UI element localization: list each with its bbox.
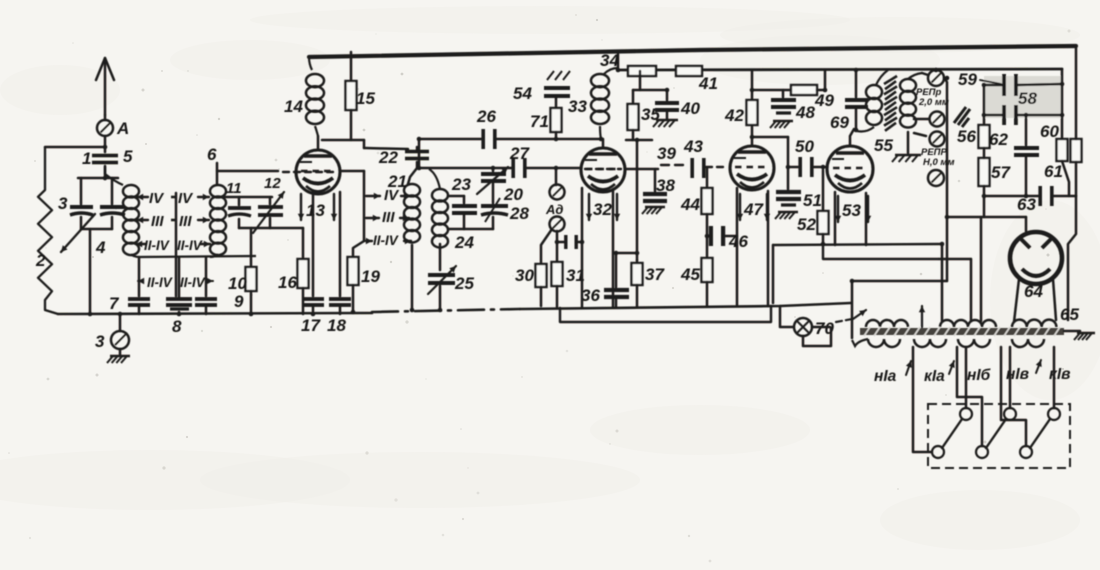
secondary humps group1 bbox=[852, 339, 900, 347]
label nIa bbox=[874, 368, 897, 385]
label kIv bbox=[1049, 366, 1071, 383]
svg-text:9: 9 bbox=[234, 292, 244, 311]
tube 13 heater arrows bbox=[298, 194, 337, 220]
svg-text:37: 37 bbox=[645, 265, 665, 284]
resistor R34 bbox=[628, 66, 656, 76]
wire below cap5 bbox=[104, 166, 107, 179]
svg-text:2,0 мм: 2,0 мм bbox=[918, 97, 949, 108]
secondary humps group4 bbox=[1012, 339, 1044, 347]
svg-text:5: 5 bbox=[123, 147, 133, 166]
wire coil bottoms bbox=[131, 254, 256, 257]
wiper arrow of R2 bbox=[61, 214, 95, 252]
power transformer core bbox=[860, 327, 1064, 336]
antenna coil right winding bbox=[210, 185, 226, 255]
capacitor C69 bbox=[830, 70, 868, 132]
node 39 dashes bbox=[657, 144, 686, 165]
wire coil21 to bus bbox=[411, 245, 414, 310]
tube 32 heater arrows bbox=[586, 194, 620, 220]
svg-text:62: 62 bbox=[989, 130, 1008, 149]
tube 47 anode lead bbox=[751, 125, 754, 146]
wire screen feed bbox=[626, 130, 652, 263]
capacitor C18 bbox=[327, 297, 351, 335]
indicator A bbox=[97, 115, 129, 138]
resistor R19 bbox=[348, 241, 381, 312]
wire y139 with cap 26 bbox=[419, 139, 601, 168]
resistor R44 bbox=[680, 168, 713, 214]
svg-text:71: 71 bbox=[530, 112, 549, 131]
terminal circle 3 bbox=[914, 132, 945, 147]
power transformer primary humps bbox=[866, 320, 1056, 327]
svg-text:20: 20 bbox=[503, 185, 523, 204]
variable capacitor C20 bbox=[477, 167, 523, 204]
svg-text:21: 21 bbox=[387, 172, 407, 191]
svg-text:II-IV: II-IV bbox=[147, 275, 173, 290]
tube 47 heater arrows bbox=[737, 194, 770, 220]
label REPR 2.0 bbox=[916, 87, 949, 108]
wire jack down bbox=[556, 231, 559, 262]
pointer squiggle bbox=[954, 107, 970, 127]
chassis hatch under C40 bbox=[653, 120, 678, 127]
svg-text:10: 10 bbox=[228, 274, 247, 293]
svg-text:55: 55 bbox=[874, 136, 893, 155]
tube 53 heater arrows bbox=[835, 196, 871, 222]
rail y259 bbox=[823, 245, 971, 259]
svg-text:65: 65 bbox=[1060, 305, 1079, 324]
capacitor C24 bracket bbox=[448, 196, 477, 252]
svg-text:23: 23 bbox=[451, 175, 471, 194]
svg-text:II-IV: II-IV bbox=[144, 238, 170, 253]
svg-text:64: 64 bbox=[1024, 282, 1043, 301]
wire caps 11-12 bottom bbox=[239, 218, 270, 267]
svg-text:52: 52 bbox=[797, 215, 816, 234]
variable capacitor C25 bbox=[428, 244, 474, 310]
svg-text:56: 56 bbox=[957, 127, 976, 146]
output transformer 55 secondary bbox=[900, 73, 922, 128]
svg-text:19: 19 bbox=[361, 267, 380, 286]
svg-text:17: 17 bbox=[301, 316, 321, 335]
capacitor C9 bbox=[195, 258, 244, 311]
right edge vertical bbox=[1075, 48, 1078, 196]
svg-text:43: 43 bbox=[683, 137, 703, 156]
chassis hatch under transformer bbox=[892, 155, 921, 162]
svg-text:II-IV: II-IV bbox=[177, 238, 203, 253]
resistor R57 bbox=[979, 148, 1012, 196]
wire y168 with cap 27 bbox=[419, 167, 581, 170]
terminal bus vertical bbox=[944, 78, 947, 281]
anode wire to cap 22 bbox=[322, 140, 408, 149]
wire tube13 legs down bbox=[313, 192, 340, 296]
chassis hatch under C51 bbox=[775, 212, 798, 219]
resistor R37 bbox=[632, 263, 666, 307]
switch contact bottom 2 bbox=[976, 446, 988, 458]
svg-text:А: А bbox=[116, 119, 129, 138]
wire to caps 11-12 bbox=[222, 196, 272, 199]
switch contact bottom 3 bbox=[1020, 446, 1032, 458]
svg-text:61: 61 bbox=[1044, 162, 1063, 181]
label nIb bbox=[967, 367, 991, 384]
switch arrow on primary bbox=[919, 306, 925, 327]
tube 32 grid dashes bbox=[585, 168, 658, 170]
tube 64 legs bbox=[1014, 279, 1056, 322]
gray box 58 bbox=[984, 76, 1062, 118]
svg-text:8: 8 bbox=[172, 317, 182, 336]
tube 32 bbox=[581, 148, 625, 192]
wire caps 3-4 bottom bbox=[81, 217, 112, 314]
trimmer capacitor C28 bbox=[481, 183, 529, 223]
resistor R10 bbox=[228, 267, 257, 293]
svg-text:30: 30 bbox=[515, 266, 534, 285]
resistor R2 (potentiometer) bbox=[35, 147, 58, 314]
capacitor C22 bbox=[378, 148, 429, 167]
lamp 70 bbox=[780, 306, 834, 338]
capacitor C54 bbox=[513, 71, 570, 108]
resistor R52 bbox=[797, 170, 829, 245]
switch contact bottom 1 bbox=[932, 446, 944, 458]
svg-text:3: 3 bbox=[95, 332, 105, 351]
svg-text:41: 41 bbox=[698, 74, 718, 93]
tube 53 bbox=[827, 146, 873, 192]
svg-text:33: 33 bbox=[568, 97, 587, 116]
tube 32 anode lead bbox=[602, 139, 605, 148]
capacitor C26 bbox=[476, 107, 497, 149]
wire caps789 to bus bbox=[139, 306, 206, 314]
dash to tube47 grid bbox=[706, 166, 727, 168]
band label row lower II-IV bbox=[138, 275, 213, 290]
svg-text:59: 59 bbox=[958, 70, 977, 89]
wire to resistor 2 bbox=[45, 146, 105, 149]
capacitor C51 bbox=[776, 190, 822, 210]
svg-text:12: 12 bbox=[264, 175, 281, 192]
coil 21 bbox=[387, 172, 420, 243]
wire caps 3-4 top bbox=[78, 177, 118, 180]
band switch row II-IV bbox=[136, 238, 210, 253]
svg-text:47: 47 bbox=[743, 200, 764, 219]
resistor R49 bbox=[752, 71, 834, 110]
wire cap22 top bbox=[416, 147, 419, 151]
svg-text:кIв: кIв bbox=[1049, 366, 1071, 383]
trimmer capacitor 11 bbox=[226, 180, 251, 216]
switch lever 2 bbox=[986, 419, 1006, 448]
anode 47 coupling wire bbox=[752, 137, 788, 189]
svg-text:18: 18 bbox=[327, 316, 346, 335]
capacitor C62 bbox=[989, 115, 1039, 196]
svg-text:Ад: Ад bbox=[545, 202, 563, 217]
svg-text:69: 69 bbox=[830, 113, 849, 132]
output transformer 55 primary bbox=[857, 70, 893, 155]
switch contact top 3 bbox=[1048, 408, 1060, 420]
resistor R41 bbox=[676, 66, 718, 93]
capacitor C38 bbox=[643, 169, 675, 203]
svg-text:36: 36 bbox=[581, 286, 600, 305]
capacitor 1-5 bbox=[82, 147, 133, 168]
svg-text:32: 32 bbox=[593, 200, 612, 219]
chassis hatch under C38 bbox=[642, 207, 665, 214]
svg-text:24: 24 bbox=[454, 233, 474, 252]
wire y217 to tube 64 bbox=[947, 196, 1026, 231]
svg-text:26: 26 bbox=[476, 107, 496, 126]
wire tube32 legs down bbox=[582, 188, 613, 307]
wire cap28 bottom bbox=[464, 217, 493, 229]
switch contact top 2 bbox=[1004, 408, 1016, 420]
tube 13 bbox=[296, 150, 340, 194]
switch feed wires bottom circles bbox=[913, 347, 1026, 452]
tube 13 anode lead bbox=[317, 136, 320, 150]
svg-text:III: III bbox=[179, 213, 192, 230]
label REPR N.0 bbox=[921, 147, 954, 168]
secondary humps group3 bbox=[958, 339, 990, 347]
oscillator band bracket bbox=[363, 171, 366, 241]
resistor R45 bbox=[680, 214, 713, 306]
capacitor C50 bbox=[788, 137, 827, 177]
pickup jack Ag upper bbox=[550, 168, 565, 200]
tube 47 bbox=[730, 146, 774, 190]
tap arrow 3 bbox=[1036, 360, 1042, 373]
switch lever 3 bbox=[1030, 419, 1050, 448]
capacitor C17 bbox=[301, 297, 324, 335]
transformer ground lead bbox=[907, 132, 910, 153]
top bus bbox=[309, 46, 1076, 57]
svg-text:Н,0 мм: Н,0 мм bbox=[923, 157, 954, 168]
svg-text:II-IV: II-IV bbox=[180, 275, 206, 290]
lamp 70 loop bbox=[803, 327, 831, 346]
svg-text:57: 57 bbox=[991, 163, 1011, 182]
antenna bbox=[96, 58, 114, 115]
svg-text:25: 25 bbox=[454, 274, 474, 293]
capacitor C63 bbox=[1017, 186, 1054, 214]
ground terminal 3 bbox=[95, 314, 129, 355]
svg-text:45: 45 bbox=[680, 265, 700, 284]
svg-text:22: 22 bbox=[378, 148, 398, 167]
resistor R35 bbox=[628, 71, 668, 130]
dashed switch box bbox=[928, 404, 1070, 468]
svg-text:нIа: нIа bbox=[874, 368, 897, 385]
chassis hatch under C48 bbox=[770, 121, 793, 128]
bottom bus right bbox=[520, 303, 851, 309]
rail y281 bbox=[852, 280, 947, 282]
terminal circle 2 bbox=[914, 112, 945, 127]
pickup jack Ag lower bbox=[545, 202, 565, 232]
terminal circle 4 bbox=[928, 170, 944, 186]
bottom second rail bbox=[560, 306, 771, 322]
wire tube53 legs down bbox=[835, 192, 866, 245]
svg-text:28: 28 bbox=[509, 204, 529, 223]
svg-text:4: 4 bbox=[95, 238, 106, 257]
trimmer capacitor C3 bbox=[58, 178, 93, 215]
wire feed coil group2 bbox=[980, 217, 983, 321]
band row IV right bbox=[366, 187, 410, 204]
svg-text:11: 11 bbox=[226, 180, 242, 197]
bottom bus left bbox=[58, 313, 372, 314]
capacitor C8 bbox=[166, 258, 192, 336]
wire y196 with cap 63 bbox=[984, 195, 1076, 198]
capacitor C31a bbox=[557, 235, 582, 249]
secondary humps group2 bbox=[914, 339, 946, 347]
wire cap22 to coil21 bbox=[408, 162, 417, 184]
svg-text:III: III bbox=[382, 209, 395, 226]
band row III right bbox=[366, 209, 409, 226]
tap arrow 1 bbox=[906, 361, 912, 375]
band switch row IV-IV bbox=[137, 190, 209, 207]
svg-text:13: 13 bbox=[306, 201, 325, 220]
tube 53 anode lead bbox=[850, 129, 854, 146]
resistor R30 bbox=[515, 229, 552, 306]
svg-text:2: 2 bbox=[35, 251, 46, 270]
svg-text:нIб: нIб bbox=[967, 367, 991, 384]
chassis hatch under 3 bbox=[107, 356, 130, 363]
svg-text:34: 34 bbox=[600, 51, 619, 70]
coil 33 bbox=[568, 51, 619, 139]
resistor R61 bbox=[1044, 139, 1082, 196]
label nIv bbox=[1006, 366, 1029, 383]
svg-text:15: 15 bbox=[356, 89, 375, 108]
svg-text:II-IV: II-IV bbox=[373, 233, 399, 248]
svg-text:1: 1 bbox=[82, 149, 91, 168]
capacitor C59 bbox=[958, 70, 1018, 96]
svg-text:кIа: кIа bbox=[924, 368, 945, 385]
capacitor C48 bbox=[771, 90, 815, 122]
capacitor C40 bbox=[655, 90, 700, 119]
svg-text:39: 39 bbox=[657, 144, 676, 163]
switch lever 1 bbox=[942, 419, 962, 448]
terminal circle 1 bbox=[922, 69, 944, 86]
svg-text:42: 42 bbox=[724, 106, 744, 125]
switch contact top 1 bbox=[960, 408, 972, 420]
band row II-IV right bbox=[366, 233, 411, 248]
label kIa bbox=[924, 368, 945, 385]
capacitor C58 bbox=[1002, 89, 1037, 125]
svg-text:III: III bbox=[151, 213, 164, 230]
wire antenna to cap 1-5 bbox=[104, 136, 107, 152]
capacitor C46 bbox=[707, 226, 748, 251]
resistor R15 bbox=[346, 52, 376, 140]
svg-text:3: 3 bbox=[58, 194, 68, 213]
wire tube47 legs down bbox=[737, 188, 768, 306]
svg-text:27: 27 bbox=[509, 144, 530, 163]
svg-text:51: 51 bbox=[803, 191, 822, 210]
output transformer 55 core bbox=[884, 76, 897, 131]
rectifier tube 64 bbox=[1010, 232, 1062, 301]
svg-text:16: 16 bbox=[278, 273, 297, 292]
coil 23 bbox=[429, 169, 471, 248]
resistor R60 bbox=[1040, 122, 1068, 161]
svg-text:IV: IV bbox=[178, 190, 194, 207]
node 6 bbox=[207, 145, 217, 184]
switch feed wires top circles bbox=[966, 347, 1054, 408]
variable capacitor 12 bbox=[253, 175, 284, 233]
resistor R16 bbox=[270, 228, 309, 292]
capacitor C4 bbox=[95, 178, 125, 257]
resistor R31 bbox=[552, 262, 585, 307]
resistor R56 bbox=[957, 125, 990, 148]
svg-text:48: 48 bbox=[795, 103, 815, 122]
svg-text:49: 49 bbox=[814, 91, 834, 110]
svg-text:38: 38 bbox=[656, 176, 675, 195]
resistor R71 bbox=[530, 108, 562, 139]
svg-text:7: 7 bbox=[109, 294, 120, 313]
svg-text:IV: IV bbox=[149, 190, 165, 207]
mechanical dash link bbox=[836, 310, 866, 322]
second bus bbox=[618, 69, 1062, 70]
coil 14 bbox=[284, 57, 324, 136]
svg-text:44: 44 bbox=[680, 195, 700, 214]
svg-text:53: 53 bbox=[842, 201, 861, 220]
capacitor C7 bbox=[109, 258, 150, 313]
svg-text:14: 14 bbox=[284, 97, 303, 116]
core right lead bbox=[1060, 305, 1080, 331]
antenna coil left winding bbox=[105, 167, 139, 255]
wire mid vertical bbox=[175, 193, 178, 296]
capacitor C36 bbox=[581, 253, 637, 307]
band switch row III-III bbox=[137, 213, 209, 230]
chassis hatch 65 bbox=[1074, 333, 1095, 340]
wires caps 58-59 bbox=[984, 69, 1062, 139]
svg-text:6: 6 bbox=[207, 145, 217, 164]
rail verticals bbox=[773, 244, 971, 338]
bottom bus dash-dot bbox=[372, 309, 520, 312]
svg-text:50: 50 bbox=[795, 137, 814, 156]
svg-text:54: 54 bbox=[513, 84, 532, 103]
svg-text:60: 60 bbox=[1040, 122, 1059, 141]
wire R10 to bus bbox=[250, 291, 253, 314]
svg-text:40: 40 bbox=[680, 99, 700, 118]
capacitor C43 bbox=[683, 137, 706, 178]
grid wire node6 to tube13 bbox=[217, 171, 364, 172]
rail y244 bbox=[773, 244, 942, 245]
svg-text:58: 58 bbox=[1018, 89, 1037, 108]
wire R16 to bus bbox=[302, 288, 305, 314]
tap arrow 2 bbox=[949, 361, 955, 374]
capacitor C27 bbox=[509, 144, 530, 178]
wire down right of tube64 bbox=[1068, 196, 1076, 320]
resistor R42 bbox=[724, 71, 758, 125]
